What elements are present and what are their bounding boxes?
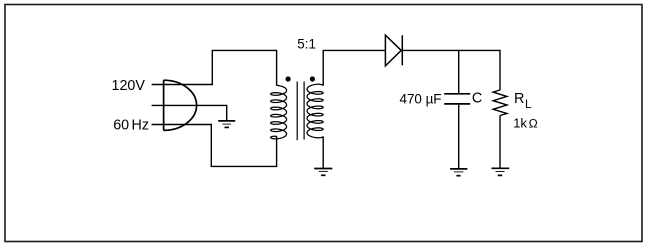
svg-text:120V: 120V (112, 78, 146, 94)
diode D1 (385, 35, 402, 66)
wire top prong to transformer primary top (152, 50, 277, 85)
capacitor C plates (444, 94, 470, 104)
svg-text:Ω: Ω (529, 117, 538, 131)
wire secondary bottom to ground (322, 136, 324, 168)
ground (plug neutral) (218, 121, 235, 128)
transformer T1 secondary winding (307, 84, 323, 137)
polarity dot secondary (310, 76, 315, 81)
svg-text:1k: 1k (513, 116, 527, 131)
svg-text:R: R (514, 91, 524, 107)
plug body bar (163, 80, 165, 130)
svg-text:Hz: Hz (132, 117, 149, 133)
ground (secondary) (314, 169, 332, 176)
svg-text:60: 60 (113, 117, 129, 133)
svg-text:L: L (525, 97, 532, 111)
resistor RL zigzag (493, 90, 507, 116)
wire diode to resistor corner (402, 50, 500, 90)
plug body arc (164, 80, 197, 130)
wire capacitor to ground (458, 104, 460, 169)
ground (resistor) (492, 168, 510, 175)
AC plug source (164, 80, 197, 130)
svg-text:C: C (472, 90, 482, 106)
polarity dot primary (286, 76, 291, 81)
wire bottom prong to primary bottom (152, 125, 277, 167)
transformer core (297, 82, 304, 141)
ground (capacitor) (450, 169, 467, 176)
wire junction to capacitor (458, 50, 460, 93)
wire resistor to ground (499, 116, 501, 169)
svg-text:5:1: 5:1 (297, 37, 316, 52)
wire middle prong to ground (152, 105, 227, 120)
svg-text:470 µF: 470 µF (400, 92, 442, 107)
transformer T1 primary winding (271, 85, 287, 138)
wire secondary top to diode (323, 50, 385, 85)
